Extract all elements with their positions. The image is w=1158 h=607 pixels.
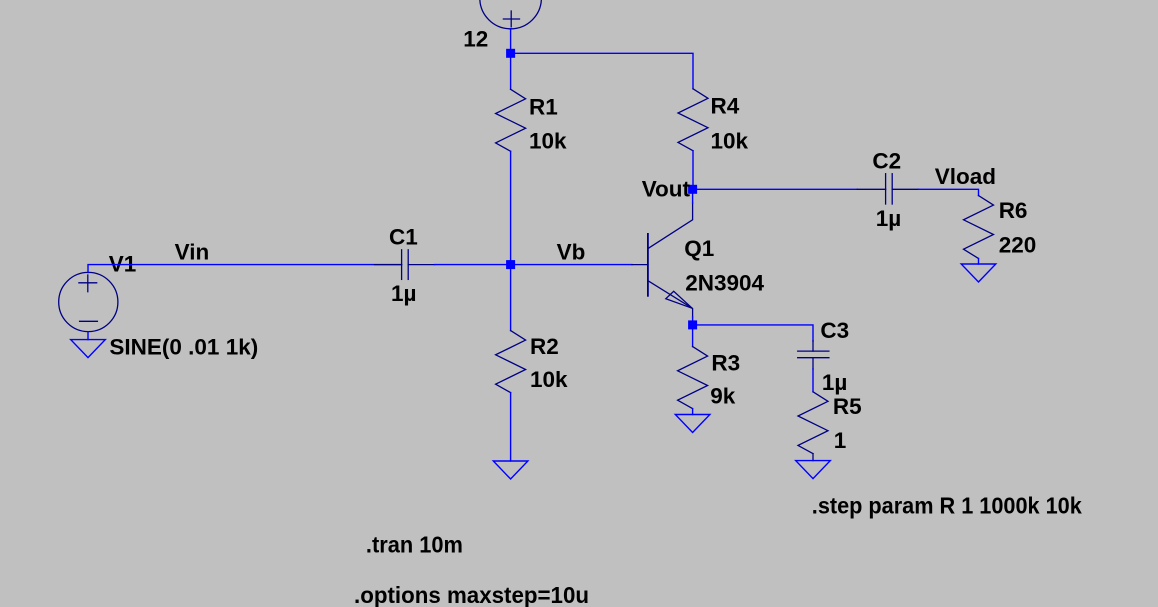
wire R2 to ground	[510, 393, 512, 461]
wire emitter node to R3	[692, 325, 694, 347]
Q1 collector lead	[648, 203, 692, 248]
node rail junction	[506, 49, 515, 58]
wire C2 to Vload corner to R6	[919, 189, 979, 195]
wire R4 to Vout node	[692, 151, 694, 190]
svg-text:.step param R 1 1000k 10k: .step param R 1 1000k 10k	[812, 493, 1082, 519]
svg-text:1: 1	[834, 428, 847, 453]
svg-text:10k: 10k	[530, 367, 568, 392]
wire Vout node to C2	[693, 188, 858, 190]
svg-text:2N3904: 2N3904	[685, 271, 764, 296]
svg-text:12: 12	[463, 27, 488, 52]
wire V2 bottom pin to rail node	[510, 29, 512, 54]
wire R6 to ground	[978, 259, 980, 265]
svg-text:1µ: 1µ	[876, 206, 901, 231]
wire emitter node to C3 branch	[693, 325, 813, 341]
svg-text:.options maxstep=10u: .options maxstep=10u	[354, 582, 589, 607]
svg-text:Q1: Q1	[684, 236, 714, 261]
wire collector to Vout node	[692, 189, 694, 203]
svg-text:R1: R1	[529, 94, 558, 119]
Q1 emitter lead	[648, 281, 692, 317]
wire C1 to Vb node to Q1 base	[435, 264, 632, 266]
voltage source V1	[59, 272, 118, 331]
resistor R4	[678, 89, 708, 151]
wire V1 bottom to ground	[87, 332, 89, 340]
capacitor C1	[375, 250, 435, 280]
svg-text:C2: C2	[872, 149, 901, 174]
capacitor C3	[798, 341, 829, 369]
svg-text:1µ: 1µ	[391, 281, 416, 306]
svg-text:10k: 10k	[711, 128, 749, 153]
node Vout junction	[688, 185, 697, 194]
svg-text:220: 220	[999, 233, 1037, 258]
wire R3 to ground	[692, 409, 694, 415]
resistor R3	[678, 347, 708, 409]
wire top rail to R4	[511, 53, 693, 89]
ground under R5	[796, 461, 831, 479]
svg-text:R6: R6	[999, 198, 1028, 223]
wire rail node to R1	[510, 53, 512, 89]
svg-text:9k: 9k	[710, 384, 736, 409]
capacitor C2	[857, 174, 918, 204]
resistor R6	[964, 196, 994, 259]
wire Vb node down to R2	[510, 265, 512, 331]
svg-text:C1: C1	[389, 225, 418, 250]
transistor Q1 2N3904	[632, 203, 693, 317]
svg-text:10k: 10k	[529, 129, 567, 154]
ground under V1	[71, 340, 106, 358]
Q1 emitter arrow	[666, 291, 693, 308]
resistor R2	[496, 331, 526, 393]
Q1 base lead	[632, 264, 648, 266]
Q1 base bar	[647, 234, 649, 296]
ground under R3	[675, 415, 710, 433]
node emitter junction	[688, 320, 697, 329]
voltage source V2 (12V supply, circle cut at top)	[480, 0, 542, 29]
svg-text:R3: R3	[711, 350, 740, 375]
resistor R1	[496, 89, 526, 151]
svg-text:1µ: 1µ	[822, 370, 847, 395]
ground under R2	[493, 461, 528, 479]
wire R1 to Vb node	[510, 151, 512, 264]
node Vb junction	[506, 260, 515, 269]
svg-text:C3: C3	[820, 318, 849, 343]
svg-text:.tran 10m: .tran 10m	[366, 532, 463, 558]
svg-text:SINE(0 .01 1k): SINE(0 .01 1k)	[109, 334, 258, 359]
svg-text:Vin: Vin	[175, 240, 210, 265]
svg-text:Vout: Vout	[642, 177, 691, 202]
svg-text:R4: R4	[711, 93, 740, 118]
resistor R5	[798, 392, 828, 454]
wire C3 to R5	[812, 369, 814, 392]
ground under R6	[961, 264, 996, 282]
wire V1 top to Vin wire to C1	[88, 265, 402, 273]
svg-text:R2: R2	[530, 334, 559, 359]
svg-text:R5: R5	[833, 394, 862, 419]
svg-text:Vload: Vload	[935, 164, 996, 189]
wire emitter to emitter node	[692, 317, 694, 325]
wire R5 to ground	[812, 454, 814, 461]
svg-text:Vb: Vb	[557, 240, 586, 265]
